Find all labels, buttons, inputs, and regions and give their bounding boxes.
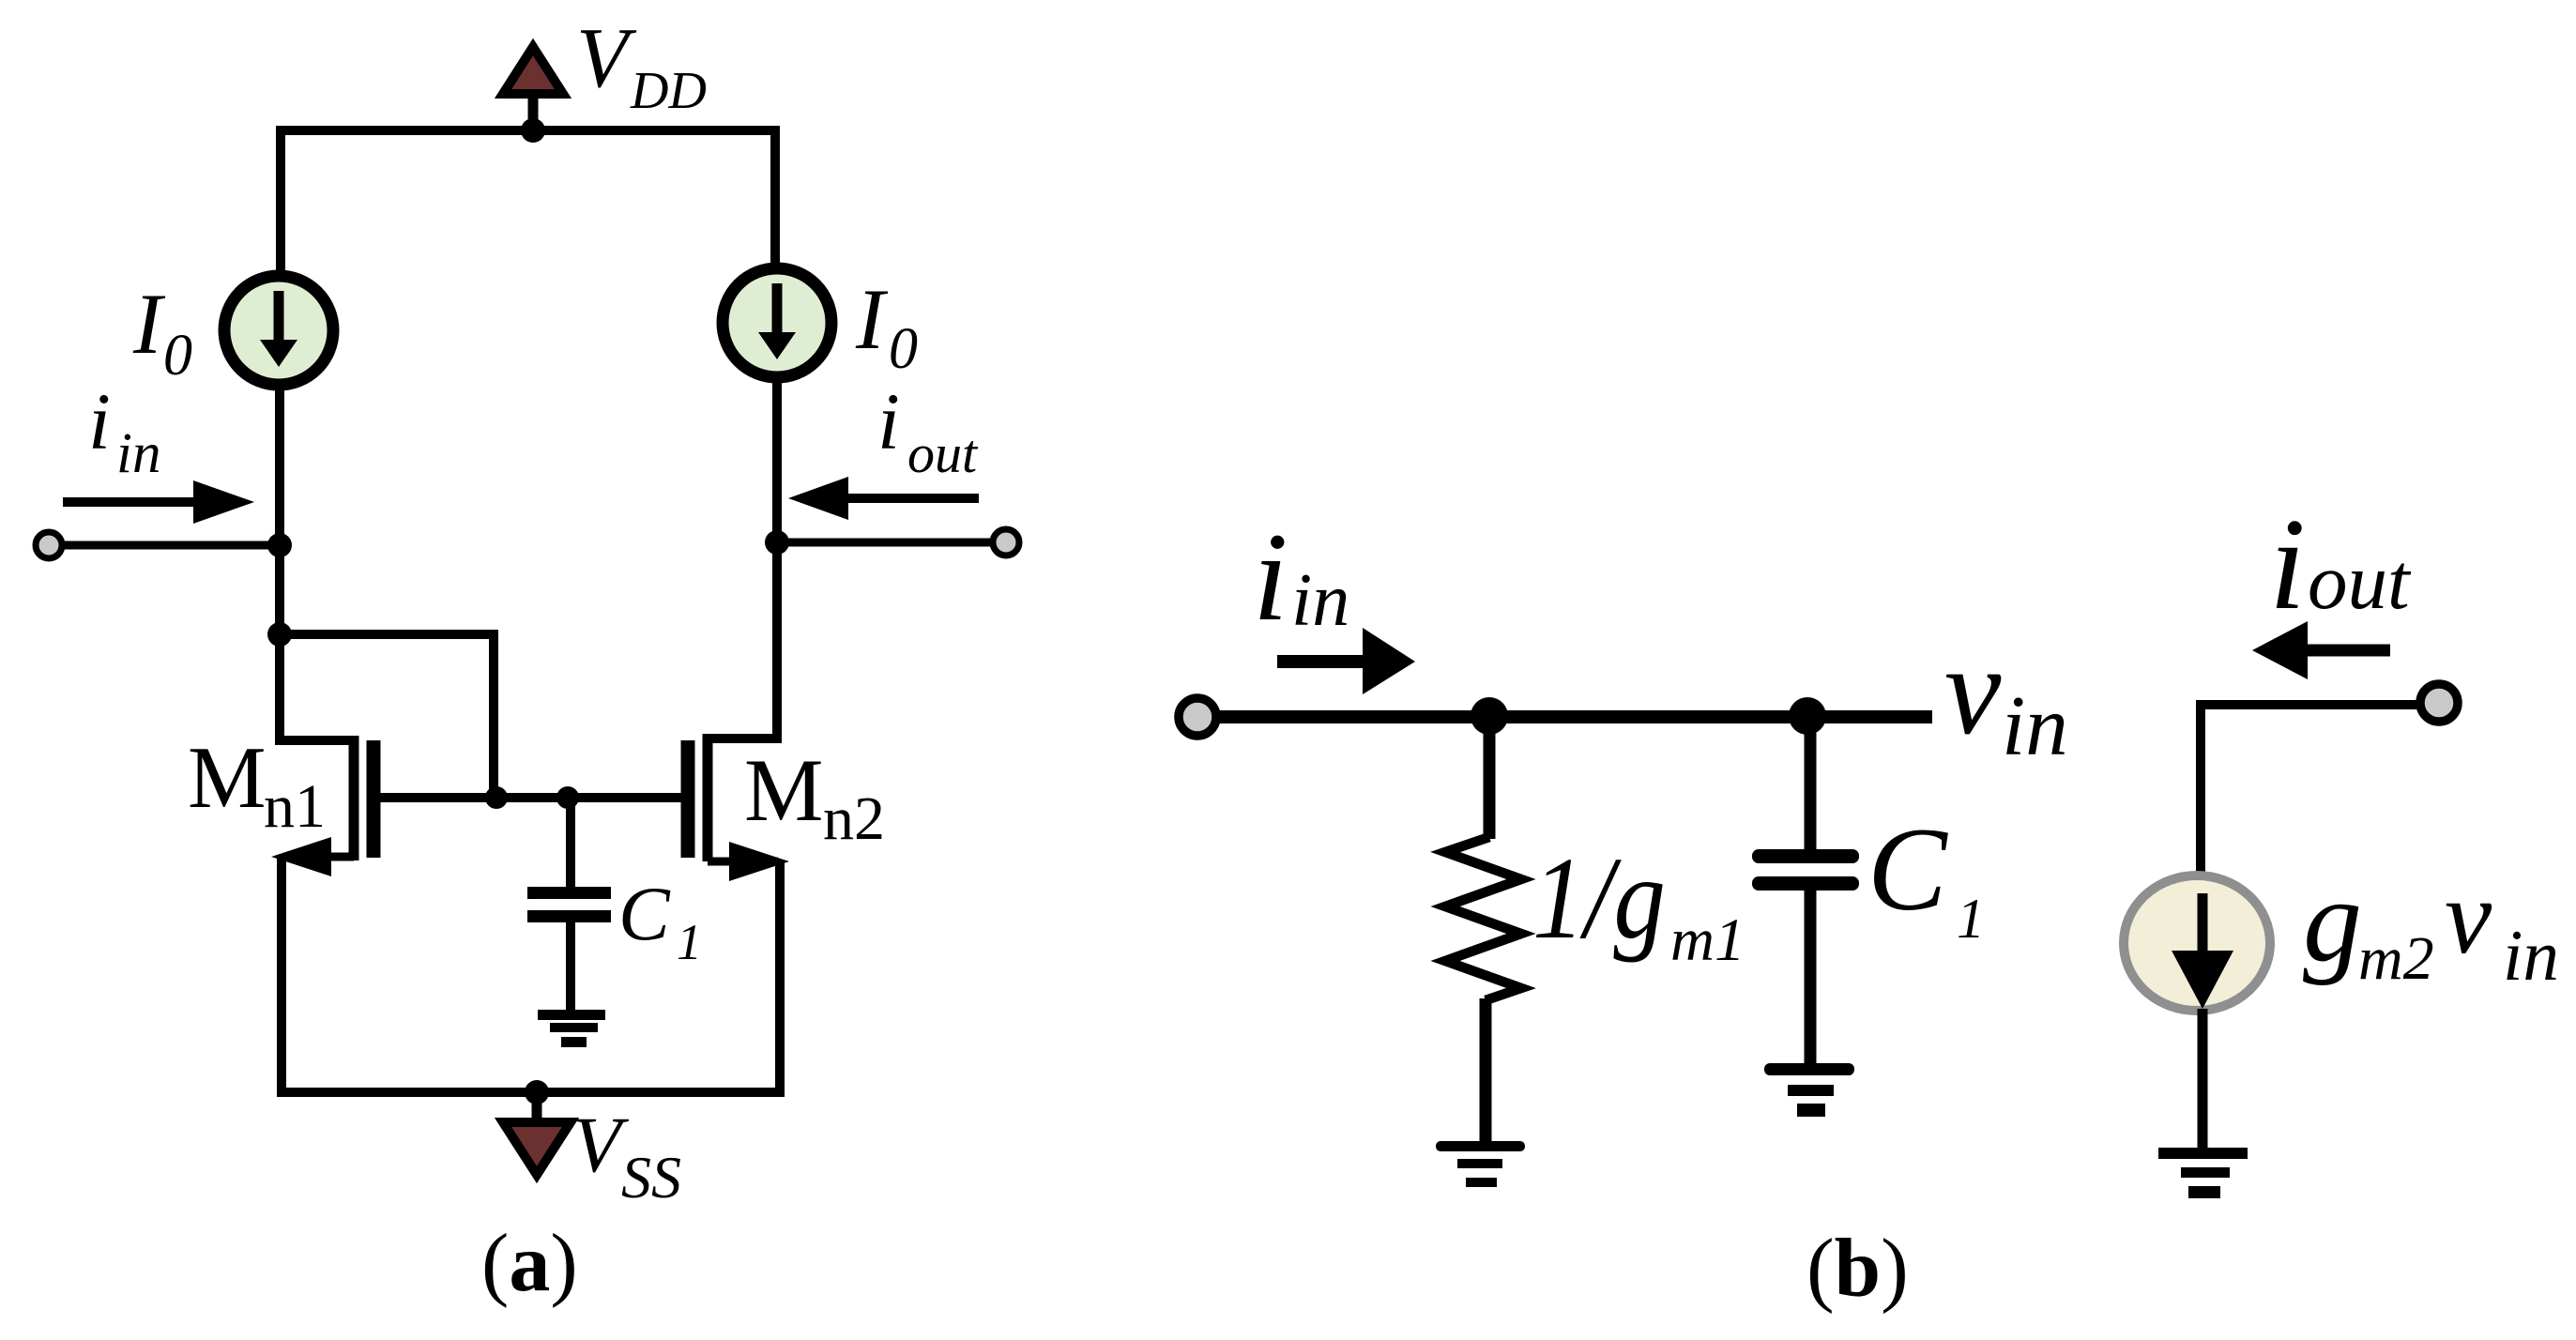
i_out label <box>877 376 979 484</box>
node input junction <box>267 533 292 557</box>
capacitor C1 lead bottom <box>566 922 575 1014</box>
svg-text:n1: n1 <box>264 772 326 841</box>
wire input lead <box>62 541 280 550</box>
wire source b to ground <box>2198 1009 2208 1153</box>
v_in label <box>1944 620 2068 773</box>
svg-text:1: 1 <box>677 914 702 970</box>
svg-text:in: in <box>2002 678 2068 773</box>
svg-text:(b): (b) <box>1806 1223 1909 1315</box>
svg-text:C: C <box>1867 804 1948 936</box>
wire output to source b <box>2201 705 2421 875</box>
wire source Mn2 down <box>775 861 785 1092</box>
output terminal b <box>2420 684 2458 722</box>
wire left branch <box>280 387 354 740</box>
wire gate bus <box>380 793 682 802</box>
svg-text:out: out <box>2308 538 2412 626</box>
ground below resistor <box>1436 1141 1525 1187</box>
power symbol VDD <box>503 47 563 130</box>
wire bottom rail VSS <box>277 1088 785 1097</box>
VSS label <box>572 1101 681 1211</box>
svg-text:v: v <box>1944 620 2002 761</box>
svg-text:i: i <box>877 376 900 466</box>
current source I0 left <box>224 276 333 385</box>
node vin junction resistor <box>1471 697 1508 735</box>
wire gate tap <box>280 634 494 798</box>
wire top rail VDD <box>281 130 775 274</box>
svg-text:g: g <box>2303 856 2362 986</box>
capacitor C1 b <box>1752 849 1859 891</box>
node gate junction right <box>556 786 579 809</box>
svg-text:DD: DD <box>630 62 707 120</box>
svg-text:n2: n2 <box>823 784 885 853</box>
VDD junction dot <box>521 118 545 143</box>
wire output lead <box>777 539 993 547</box>
VDD label <box>576 10 707 120</box>
I0 label left <box>132 276 192 388</box>
C1 label part a <box>618 871 702 970</box>
svg-text:1/g: 1/g <box>1532 834 1666 964</box>
svg-text:M: M <box>188 729 267 827</box>
caption (a) <box>481 1218 578 1309</box>
svg-text:v: v <box>2445 859 2492 976</box>
capacitor C1 <box>527 887 611 922</box>
VSS junction dot <box>525 1080 549 1104</box>
node gate tap junction <box>267 622 292 647</box>
svg-text:0: 0 <box>163 324 192 388</box>
input terminal b <box>1179 698 1216 736</box>
svg-text:SS: SS <box>621 1144 681 1211</box>
1/gm1 label <box>1532 834 1745 974</box>
resistor 1/gm1 <box>1445 837 1521 1000</box>
dependent source gm2vin <box>2124 876 2270 1011</box>
ground below C1 <box>538 1010 605 1047</box>
resistor lead bottom <box>1480 998 1492 1147</box>
transistor Q Mn1 <box>271 736 373 876</box>
ground below dependent source <box>2158 1148 2248 1198</box>
input terminal <box>36 532 62 558</box>
i_out label b <box>2269 492 2412 637</box>
i_out arrow <box>788 477 979 520</box>
wire source Mn1 down <box>277 857 286 1092</box>
svg-text:0: 0 <box>889 317 918 381</box>
transistor Q Mn2 <box>688 734 789 881</box>
svg-text:out: out <box>907 423 979 484</box>
capacitor C1 lead top <box>566 798 575 889</box>
svg-text:1: 1 <box>1957 888 1985 950</box>
svg-text:m1: m1 <box>1670 906 1745 974</box>
current source I0 right <box>723 268 831 377</box>
i_in arrow <box>63 480 254 524</box>
capacitor C1 b lead top <box>1805 716 1817 851</box>
i_in label b <box>1253 508 1349 647</box>
Mn1 label <box>188 729 326 841</box>
svg-text:in: in <box>2503 915 2559 996</box>
output terminal <box>993 529 1019 556</box>
wire right branch <box>708 379 777 739</box>
ground below capacitor b <box>1764 1063 1854 1117</box>
svg-text:in: in <box>1291 559 1349 642</box>
svg-text:V: V <box>576 10 637 105</box>
svg-text:C: C <box>618 871 671 956</box>
i_in label <box>88 376 160 485</box>
capacitor C1 b lead bottom <box>1805 891 1817 1065</box>
node vin junction capacitor <box>1789 697 1826 735</box>
svg-text:I: I <box>855 271 889 367</box>
I0 label right <box>855 271 918 381</box>
Mn2 label <box>744 740 885 853</box>
svg-text:i: i <box>1253 508 1288 647</box>
svg-text:(a): (a) <box>481 1218 578 1309</box>
svg-text:I: I <box>132 276 166 372</box>
svg-text:in: in <box>116 422 160 485</box>
power symbol VSS <box>503 1092 571 1175</box>
C1 label part b <box>1867 804 1985 950</box>
svg-text:i: i <box>88 376 111 466</box>
wire input node b <box>1215 710 1932 723</box>
svg-text:m2: m2 <box>2358 924 2434 993</box>
i_in arrow b <box>1277 628 1415 694</box>
caption (b) <box>1806 1223 1909 1315</box>
node output junction <box>765 530 789 555</box>
svg-text:M: M <box>744 740 823 840</box>
node gate junction left <box>485 786 508 809</box>
i_out arrow b <box>2252 621 2390 679</box>
gm2vin label <box>2303 856 2559 996</box>
svg-text:i: i <box>2269 492 2306 637</box>
resistor 1/gm1 lead top <box>1484 716 1496 839</box>
